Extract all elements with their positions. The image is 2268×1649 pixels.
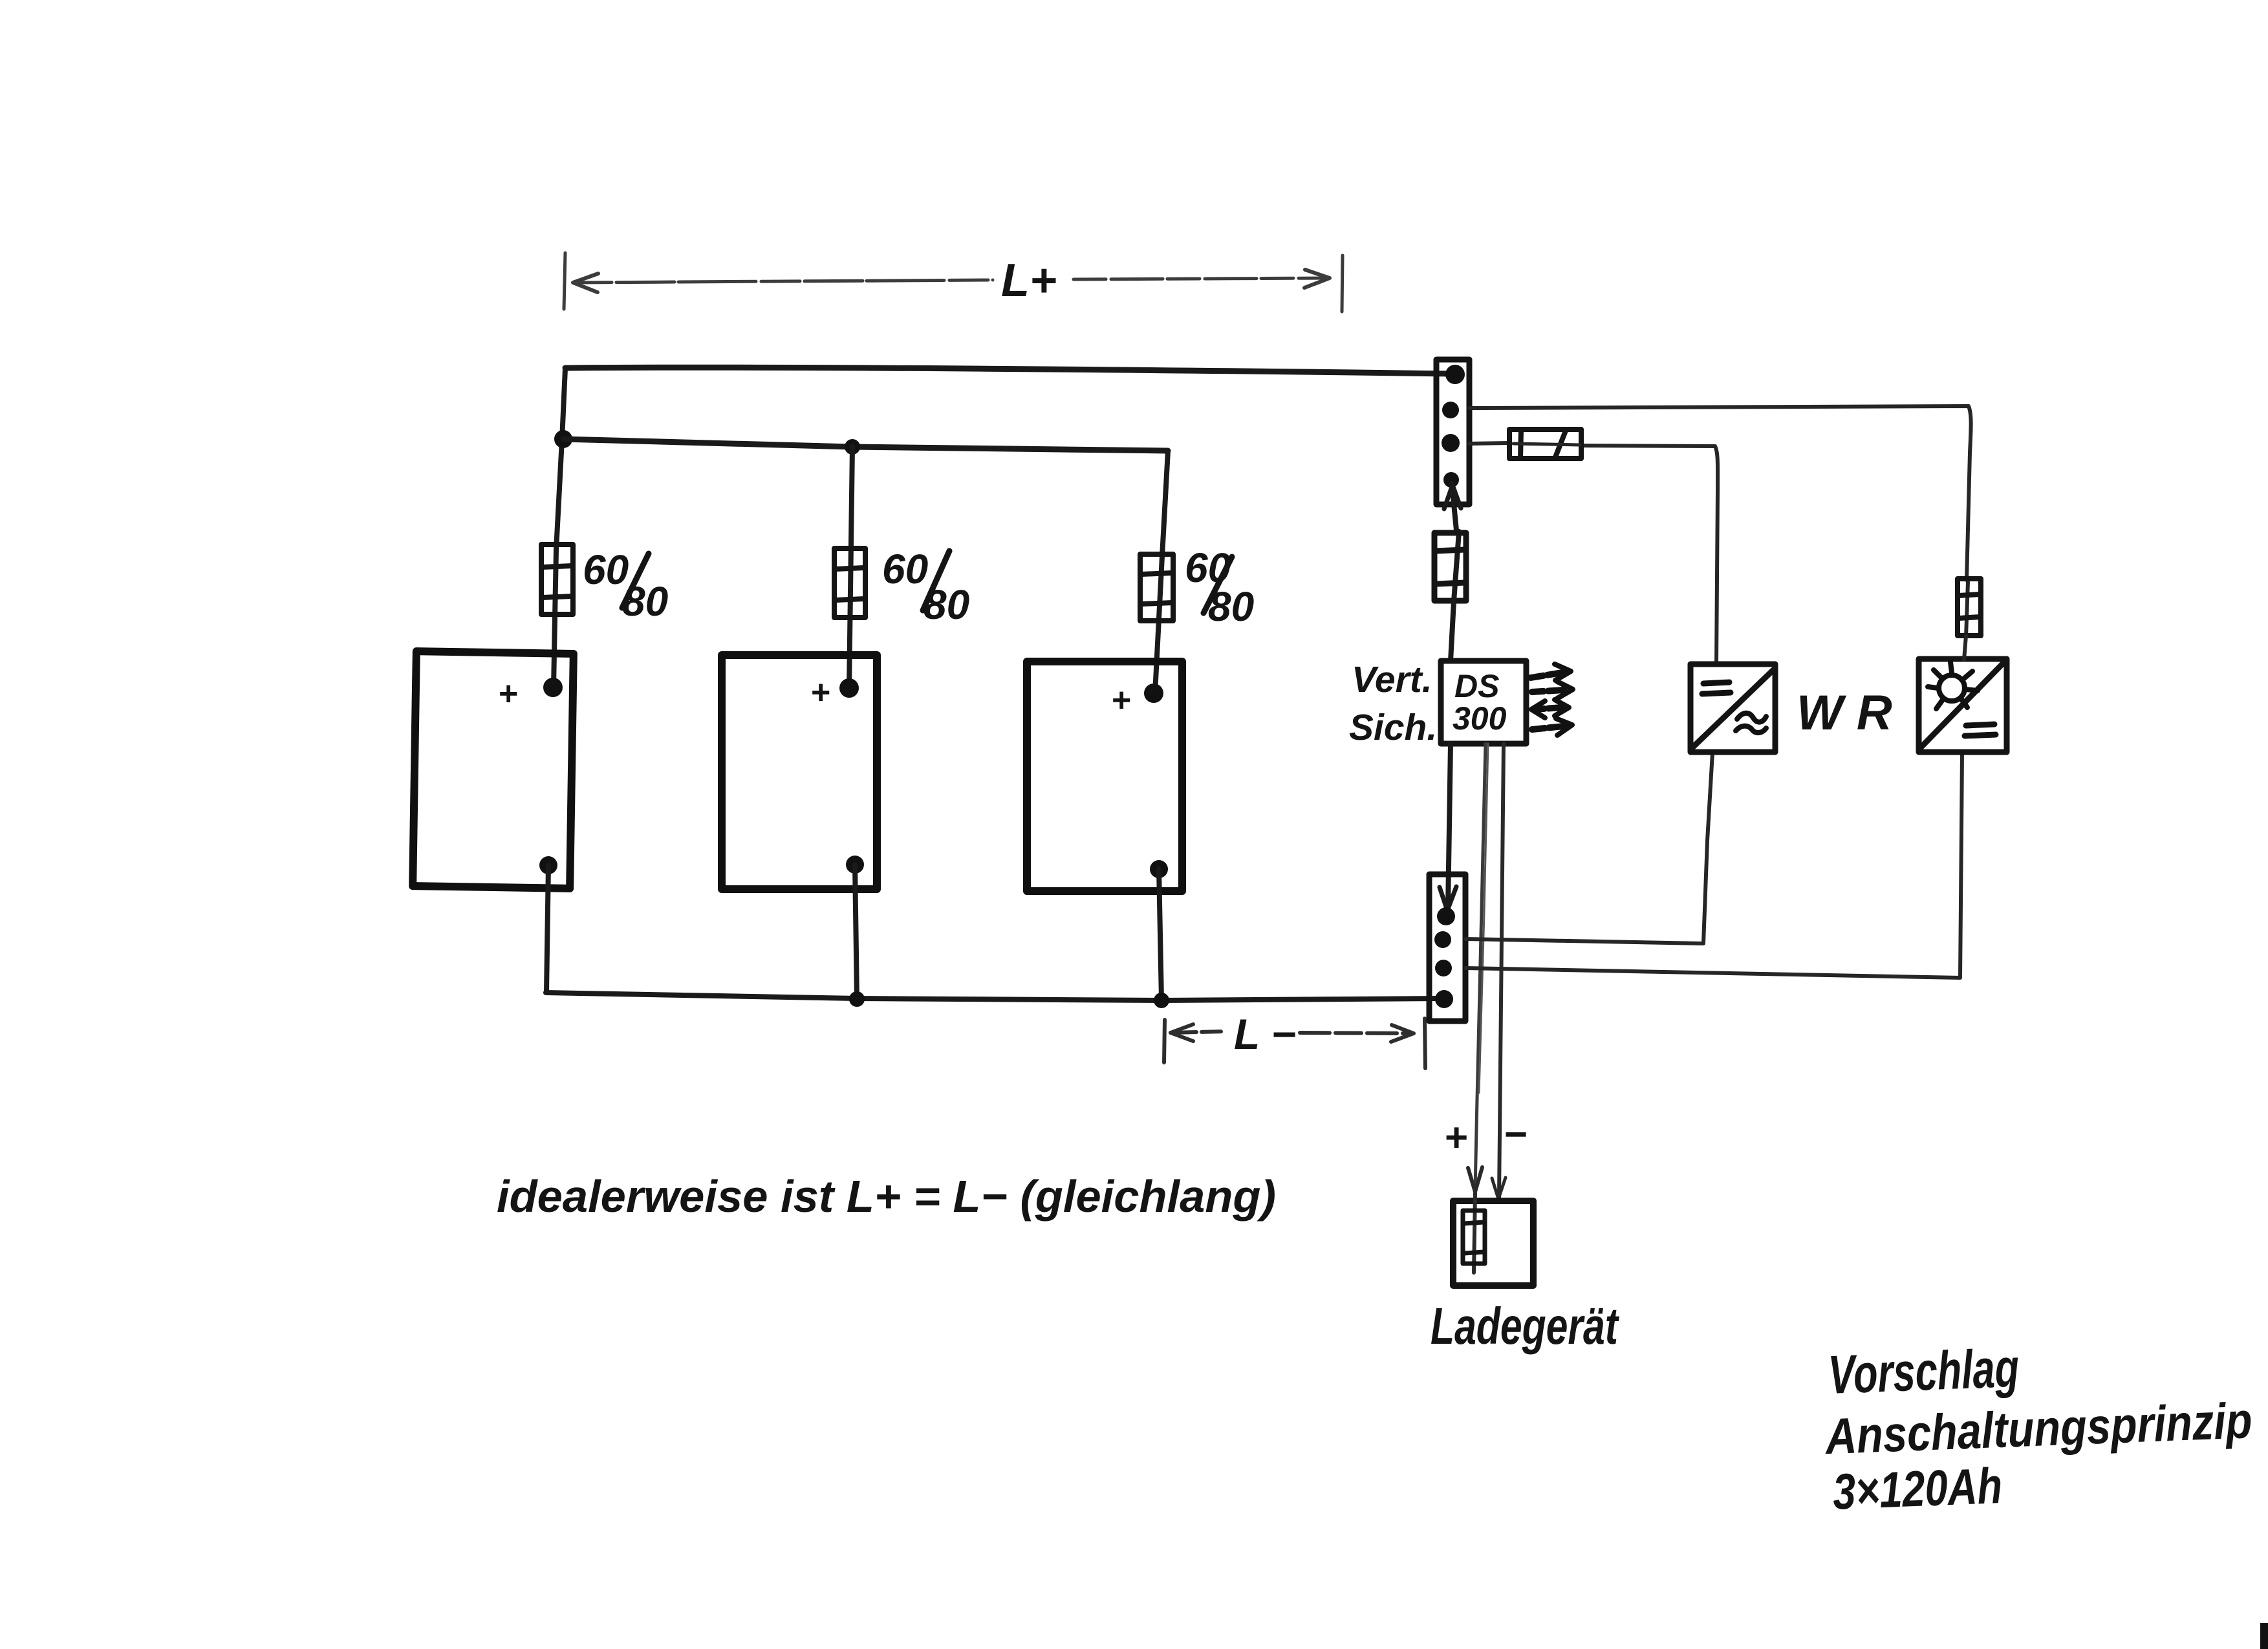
svg-text:+: + — [1111, 682, 1130, 719]
svg-text:L −: L − — [1234, 1010, 1296, 1058]
wire battery1 positive lead — [554, 369, 565, 687]
svg-text:+: + — [498, 675, 517, 713]
battery B1 negative terminal — [539, 856, 557, 874]
DS300 distributor box — [1441, 661, 1526, 744]
dimension arrow L- — [1164, 1018, 1425, 1068]
battery B3 — [1027, 662, 1182, 891]
busbar top (Verteiler) — [1436, 360, 1469, 504]
charger fuse — [1474, 1193, 1475, 1273]
fuse F2 — [834, 548, 865, 618]
svg-text:Vert.: Vert. — [1352, 659, 1432, 700]
battery B3 positive terminal — [1144, 684, 1163, 703]
battery B2 positive terminal — [839, 678, 859, 698]
wire L- bottom bus — [546, 993, 1443, 1000]
busbar top node 2 — [1442, 402, 1459, 418]
wire DS300 to charger minus — [1499, 744, 1504, 1198]
wire bottom busbar to inverter — [1465, 753, 1712, 943]
inverter AC symbol — [1737, 713, 1766, 722]
solar DC symbol — [1965, 724, 1996, 736]
wire fuse to DS300 — [1451, 601, 1454, 661]
svg-text:300: 300 — [1453, 700, 1507, 737]
solar charge controller box — [1919, 659, 2007, 752]
busbar bottom node 1 — [1437, 907, 1455, 925]
label 60/80 fuse3 — [1185, 544, 1254, 630]
svg-text:−: − — [1504, 1112, 1528, 1157]
wire DS300 to charger plus (sketchy) — [1475, 744, 1485, 1190]
svg-text:Sich.: Sich. — [1349, 707, 1437, 748]
busbar top node 3 — [1442, 434, 1460, 452]
node junction battery2 positive — [845, 439, 860, 455]
solar sun symbol — [1928, 662, 1978, 709]
wire solar fuse to box — [1964, 636, 1966, 660]
wire busbar node3 to inverter — [1469, 443, 1509, 444]
svg-text:idealerweise ist L+ = L− (glei: idealerweise ist L+ = L− (gleichlang) — [497, 1171, 1276, 1222]
fuse solar — [1966, 582, 1968, 637]
title block Vorschlag — [1821, 1328, 2256, 1520]
charger box (Ladegeraet) — [1453, 1201, 1533, 1286]
battery B2 — [722, 655, 877, 889]
svg-text:+: + — [1445, 1115, 1468, 1160]
node junction battery3 negative — [1154, 993, 1169, 1008]
wire DS300 to bottom busbar with down arrow — [1448, 744, 1451, 909]
wire bottom busbar to solar charger — [1465, 753, 1962, 978]
wire battery3 positive lead — [1155, 451, 1168, 693]
battery B1 positive terminal — [543, 678, 563, 697]
battery B1 — [413, 651, 574, 889]
wire busbar to fuse below with up arrow — [1452, 484, 1456, 530]
fuse main (below top busbar) — [1454, 532, 1459, 601]
fuse F1 — [541, 544, 573, 614]
fuse F3 — [1140, 554, 1173, 621]
busbar bottom node 4 — [1435, 990, 1453, 1008]
node junction battery2 negative — [849, 991, 865, 1007]
wire battery1 negative lead — [546, 865, 548, 992]
svg-text:Vorschlag: Vorschlag — [1827, 1337, 2020, 1405]
fuse horizontal (inverter feed) — [1509, 429, 1581, 458]
battery B2 negative terminal — [846, 856, 864, 874]
inverter DC symbol — [1702, 682, 1731, 694]
busbar bottom node 2 — [1434, 931, 1451, 948]
wire L+ top bus — [565, 367, 1454, 374]
inverter WR box — [1690, 664, 1775, 752]
svg-text:80: 80 — [622, 578, 668, 625]
svg-text:+: + — [810, 674, 830, 711]
svg-text:L+: L+ — [1001, 255, 1057, 307]
svg-text:3×120Ah: 3×120Ah — [1831, 1457, 2003, 1520]
wire busbar node2 to solar charger (top right run) — [1469, 406, 1971, 580]
busbar top node 1 — [1445, 365, 1465, 384]
label 60/80 fuse1 — [583, 546, 668, 625]
svg-text:60: 60 — [882, 546, 928, 592]
label 60/80 fuse2 — [882, 546, 969, 628]
wire positive branch bus — [564, 439, 1168, 451]
svg-text:W R: W R — [1797, 685, 1892, 740]
scanner mark bottom right — [2260, 1623, 2268, 1649]
svg-text:Ladegerät: Ladegerät — [1431, 1297, 1620, 1355]
wire battery2 positive lead — [849, 447, 852, 688]
DS300 output arrows — [1531, 664, 1573, 735]
busbar bottom — [1429, 874, 1465, 1021]
wire battery3 negative lead — [1159, 869, 1161, 1000]
battery B3 negative terminal — [1150, 860, 1168, 878]
busbar bottom node 3 — [1435, 960, 1452, 976]
dimension arrow L+ — [564, 253, 1343, 312]
node junction battery1 positive branch — [554, 430, 572, 448]
busbar top node 4 — [1443, 472, 1459, 488]
wire battery2 negative lead — [855, 865, 857, 998]
svg-text:DS: DS — [1454, 668, 1499, 704]
